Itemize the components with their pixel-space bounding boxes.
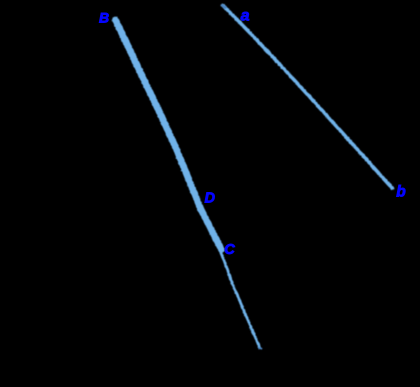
svg-text:b: b [396,183,406,200]
svg-text:B: B [99,10,109,26]
wire tip dark nub top of right stroke [222,5,225,8]
svg-text:C: C [224,242,235,258]
wire tip dark nub bottom [258,347,261,349]
wire thick segment B-C [115,20,221,250]
svg-text:D: D [205,190,216,206]
svg-text:a: a [241,8,250,25]
wire thin segment below C [219,249,260,348]
wire right long stroke a-b [223,5,393,188]
